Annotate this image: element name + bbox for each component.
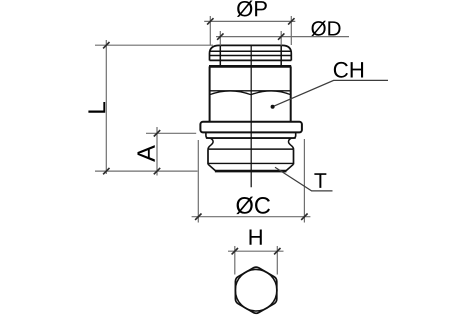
- label H: [250, 230, 262, 245]
- cap inner line 2: [210, 55, 292, 57]
- label T: [314, 173, 326, 188]
- tick ØD right: [278, 33, 284, 39]
- thread runout left: [208, 138, 213, 149]
- hex chamfer arc left: [210, 91, 251, 95]
- label A: [137, 145, 154, 162]
- tick ØP right: [288, 18, 294, 24]
- tube hole right edge: [280, 46, 282, 66]
- dimension L/A extension bottom: [95, 170, 198, 172]
- tick A bottom: [154, 168, 160, 174]
- body left side: [209, 66, 211, 121]
- label ØD: [311, 21, 340, 36]
- body right side: [290, 66, 292, 121]
- dimension L line: [105, 40, 107, 174]
- leader CH line: [273, 80, 388, 106]
- tube hole left edge: [219, 46, 221, 66]
- hex bottom view: [235, 267, 276, 313]
- leader CH dot: [271, 105, 275, 109]
- flange: [200, 122, 302, 133]
- washer under flange: [206, 132, 296, 138]
- label ØP: [237, 1, 267, 17]
- tick ØC left: [195, 214, 201, 220]
- tick L bottom: [103, 168, 109, 174]
- dimension ØP line: [204, 20, 295, 22]
- body top thick edge: [209, 65, 291, 68]
- dimension ØC extension right: [303, 139, 305, 223]
- dimension ØP extension right: [290, 16, 292, 45]
- dimension ØD extension right: [280, 31, 282, 46]
- cap inner line 1: [210, 50, 292, 52]
- hex top line: [210, 90, 291, 92]
- thread barrel right side: [293, 149, 295, 164]
- tick H left: [232, 248, 238, 254]
- dimension ØC extension left: [197, 140, 199, 223]
- tick A top: [154, 130, 160, 136]
- thread top line: [208, 148, 293, 150]
- dimension H extension left: [234, 246, 236, 275]
- dimension ØP extension left: [209, 16, 211, 45]
- tick H right: [274, 248, 280, 254]
- bottom chamfer right: [286, 164, 294, 171]
- dimension ØD extension left: [219, 31, 221, 46]
- hex chamfer arc right: [251, 91, 291, 95]
- thread barrel left side: [207, 149, 209, 164]
- label ØC: [236, 197, 270, 215]
- inscribed circle: [235, 269, 277, 311]
- leader T line: [275, 167, 333, 191]
- bottom chamfer left: [208, 164, 216, 171]
- thread runout right: [289, 138, 294, 149]
- dimension A extension top: [146, 132, 196, 134]
- tick ØC right: [301, 214, 307, 220]
- dimension ØC line: [192, 216, 311, 218]
- centerline axis: [250, 45, 252, 187]
- dimension H extension right: [276, 246, 278, 275]
- dimension A line: [156, 127, 158, 176]
- thread bottom line: [208, 162, 294, 164]
- tick ØP left: [207, 18, 213, 24]
- dimension ØD line: [216, 36, 349, 38]
- tick L top: [103, 42, 109, 48]
- washer bottom edge: [206, 137, 296, 139]
- cap bottom edge: [210, 59, 292, 61]
- label L: [88, 102, 105, 113]
- cap outline (release button): [210, 45, 292, 60]
- label CH: [334, 62, 363, 78]
- bottom thick edge: [215, 170, 287, 173]
- dimension L extension top: [95, 44, 213, 46]
- dimension H line: [228, 250, 284, 252]
- tick ØD left: [217, 33, 223, 39]
